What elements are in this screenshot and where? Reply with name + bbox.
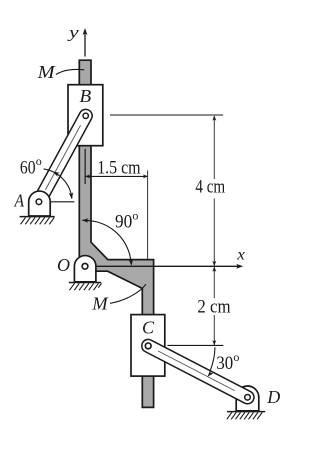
horizontal reference line at A: [51, 201, 75, 203]
2 cm bottom arrowhead (down): [212, 340, 216, 345]
svg-text:x: x: [236, 247, 245, 264]
pin support at A (pedestal): [29, 191, 51, 216]
link CD (outer edge): [148, 346, 247, 397]
link CD (white body): [148, 346, 247, 397]
y axis: [84, 32, 86, 57]
ground hatching at D: [227, 412, 262, 419]
link AB (outer edge): [39, 116, 86, 202]
4 cm top arrowhead (up): [212, 116, 216, 121]
svg-text:60: 60: [20, 157, 36, 178]
4 cm bottom arrowhead (down): [212, 261, 216, 266]
30 degree arc: [210, 347, 215, 371]
2 cm dimension line (upper segment): [213, 267, 215, 298]
svg-text:B: B: [80, 86, 92, 106]
1.5 cm dimension line: [86, 175, 148, 177]
ground line at O: [69, 282, 101, 284]
svg-text:o: o: [132, 209, 138, 223]
svg-text:30: 30: [216, 353, 233, 374]
svg-text:o: o: [233, 350, 239, 364]
frame M (gray bent member: vertical rod, horizontal bar, lower vertical bar): [79, 60, 153, 407]
90 arc top arrowhead (points left): [82, 218, 89, 223]
svg-text:M: M: [37, 62, 56, 82]
extension line at C pin level: [167, 344, 223, 346]
x axis: [85, 265, 240, 267]
leader line from M to rod: [56, 69, 84, 74]
4 cm dimension line (upper segment): [213, 116, 215, 179]
pin support at O (pedestal): [74, 256, 96, 282]
30 arc arrowhead: [208, 370, 214, 377]
ground hatching at A: [21, 217, 55, 224]
link AB inner line: [45, 125, 80, 190]
svg-text:M: M: [91, 293, 108, 313]
x axis arrowhead: [236, 264, 243, 269]
ground line at D: [227, 411, 265, 413]
2 cm dimension line (lower segment): [213, 315, 215, 345]
60 arc arrowhead on link (points up-left): [53, 172, 60, 177]
y axis arrowhead: [83, 28, 88, 35]
svg-text:y: y: [67, 25, 80, 42]
svg-text:C: C: [142, 318, 155, 338]
90 degree arc: [83, 220, 132, 264]
svg-text:1.5 cm: 1.5 cm: [97, 158, 141, 179]
4 cm extension line from B pin level: [110, 114, 223, 116]
2 cm top arrowhead (up): [212, 267, 216, 272]
pin hole at C: [145, 343, 151, 349]
svg-text:A: A: [14, 191, 25, 211]
rod centerline extension (for 1.5 cm dimension): [84, 149, 86, 184]
left arrowhead at rod centerline: [85, 174, 90, 178]
svg-text:O: O: [57, 255, 70, 275]
90 arc bottom arrowhead (points down): [129, 259, 134, 266]
svg-text:o: o: [36, 154, 42, 168]
leader line from bottom M to frame: [110, 284, 146, 303]
svg-text:90: 90: [115, 212, 132, 233]
svg-text:4 cm: 4 cm: [195, 177, 225, 198]
svg-text:D: D: [266, 387, 280, 407]
vertical extension line down to bar: [147, 170, 149, 259]
pin hole at A: [36, 199, 42, 205]
60 arc arrowhead (down): [69, 192, 74, 199]
ground line at A: [20, 216, 55, 218]
pin support at D (pedestal): [236, 386, 259, 411]
60 degree arc: [44, 169, 72, 199]
pin hole at B: [83, 113, 88, 118]
link CD inner line: [158, 351, 235, 391]
4 cm dimension line (lower segment): [213, 199, 215, 266]
slider block B: [68, 85, 103, 146]
ground hatching at O: [70, 283, 102, 290]
right arrowhead at extension line: [143, 174, 148, 178]
pin hole at D: [245, 395, 251, 401]
svg-text:2 cm: 2 cm: [197, 297, 230, 318]
pin hole at O: [82, 263, 88, 269]
slider block C: [131, 315, 165, 377]
link AB (white body): [39, 116, 86, 202]
